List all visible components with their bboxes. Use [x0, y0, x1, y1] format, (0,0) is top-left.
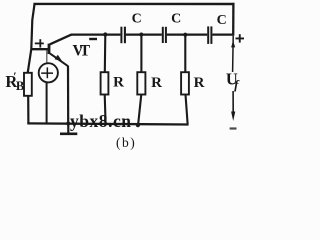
svg-text:C: C	[171, 12, 181, 27]
svg-text:(b): (b)	[116, 135, 136, 150]
svg-text:f: f	[234, 77, 240, 92]
svg-text:R: R	[151, 75, 162, 91]
svg-text:B: B	[16, 79, 24, 93]
svg-text:R: R	[113, 75, 124, 91]
svg-text:T: T	[80, 42, 91, 59]
svg-text:C: C	[217, 13, 227, 28]
svg-text:C: C	[132, 12, 142, 27]
svg-text:R: R	[194, 75, 205, 91]
svg-text:ybx8.cn: ybx8.cn	[70, 111, 131, 131]
